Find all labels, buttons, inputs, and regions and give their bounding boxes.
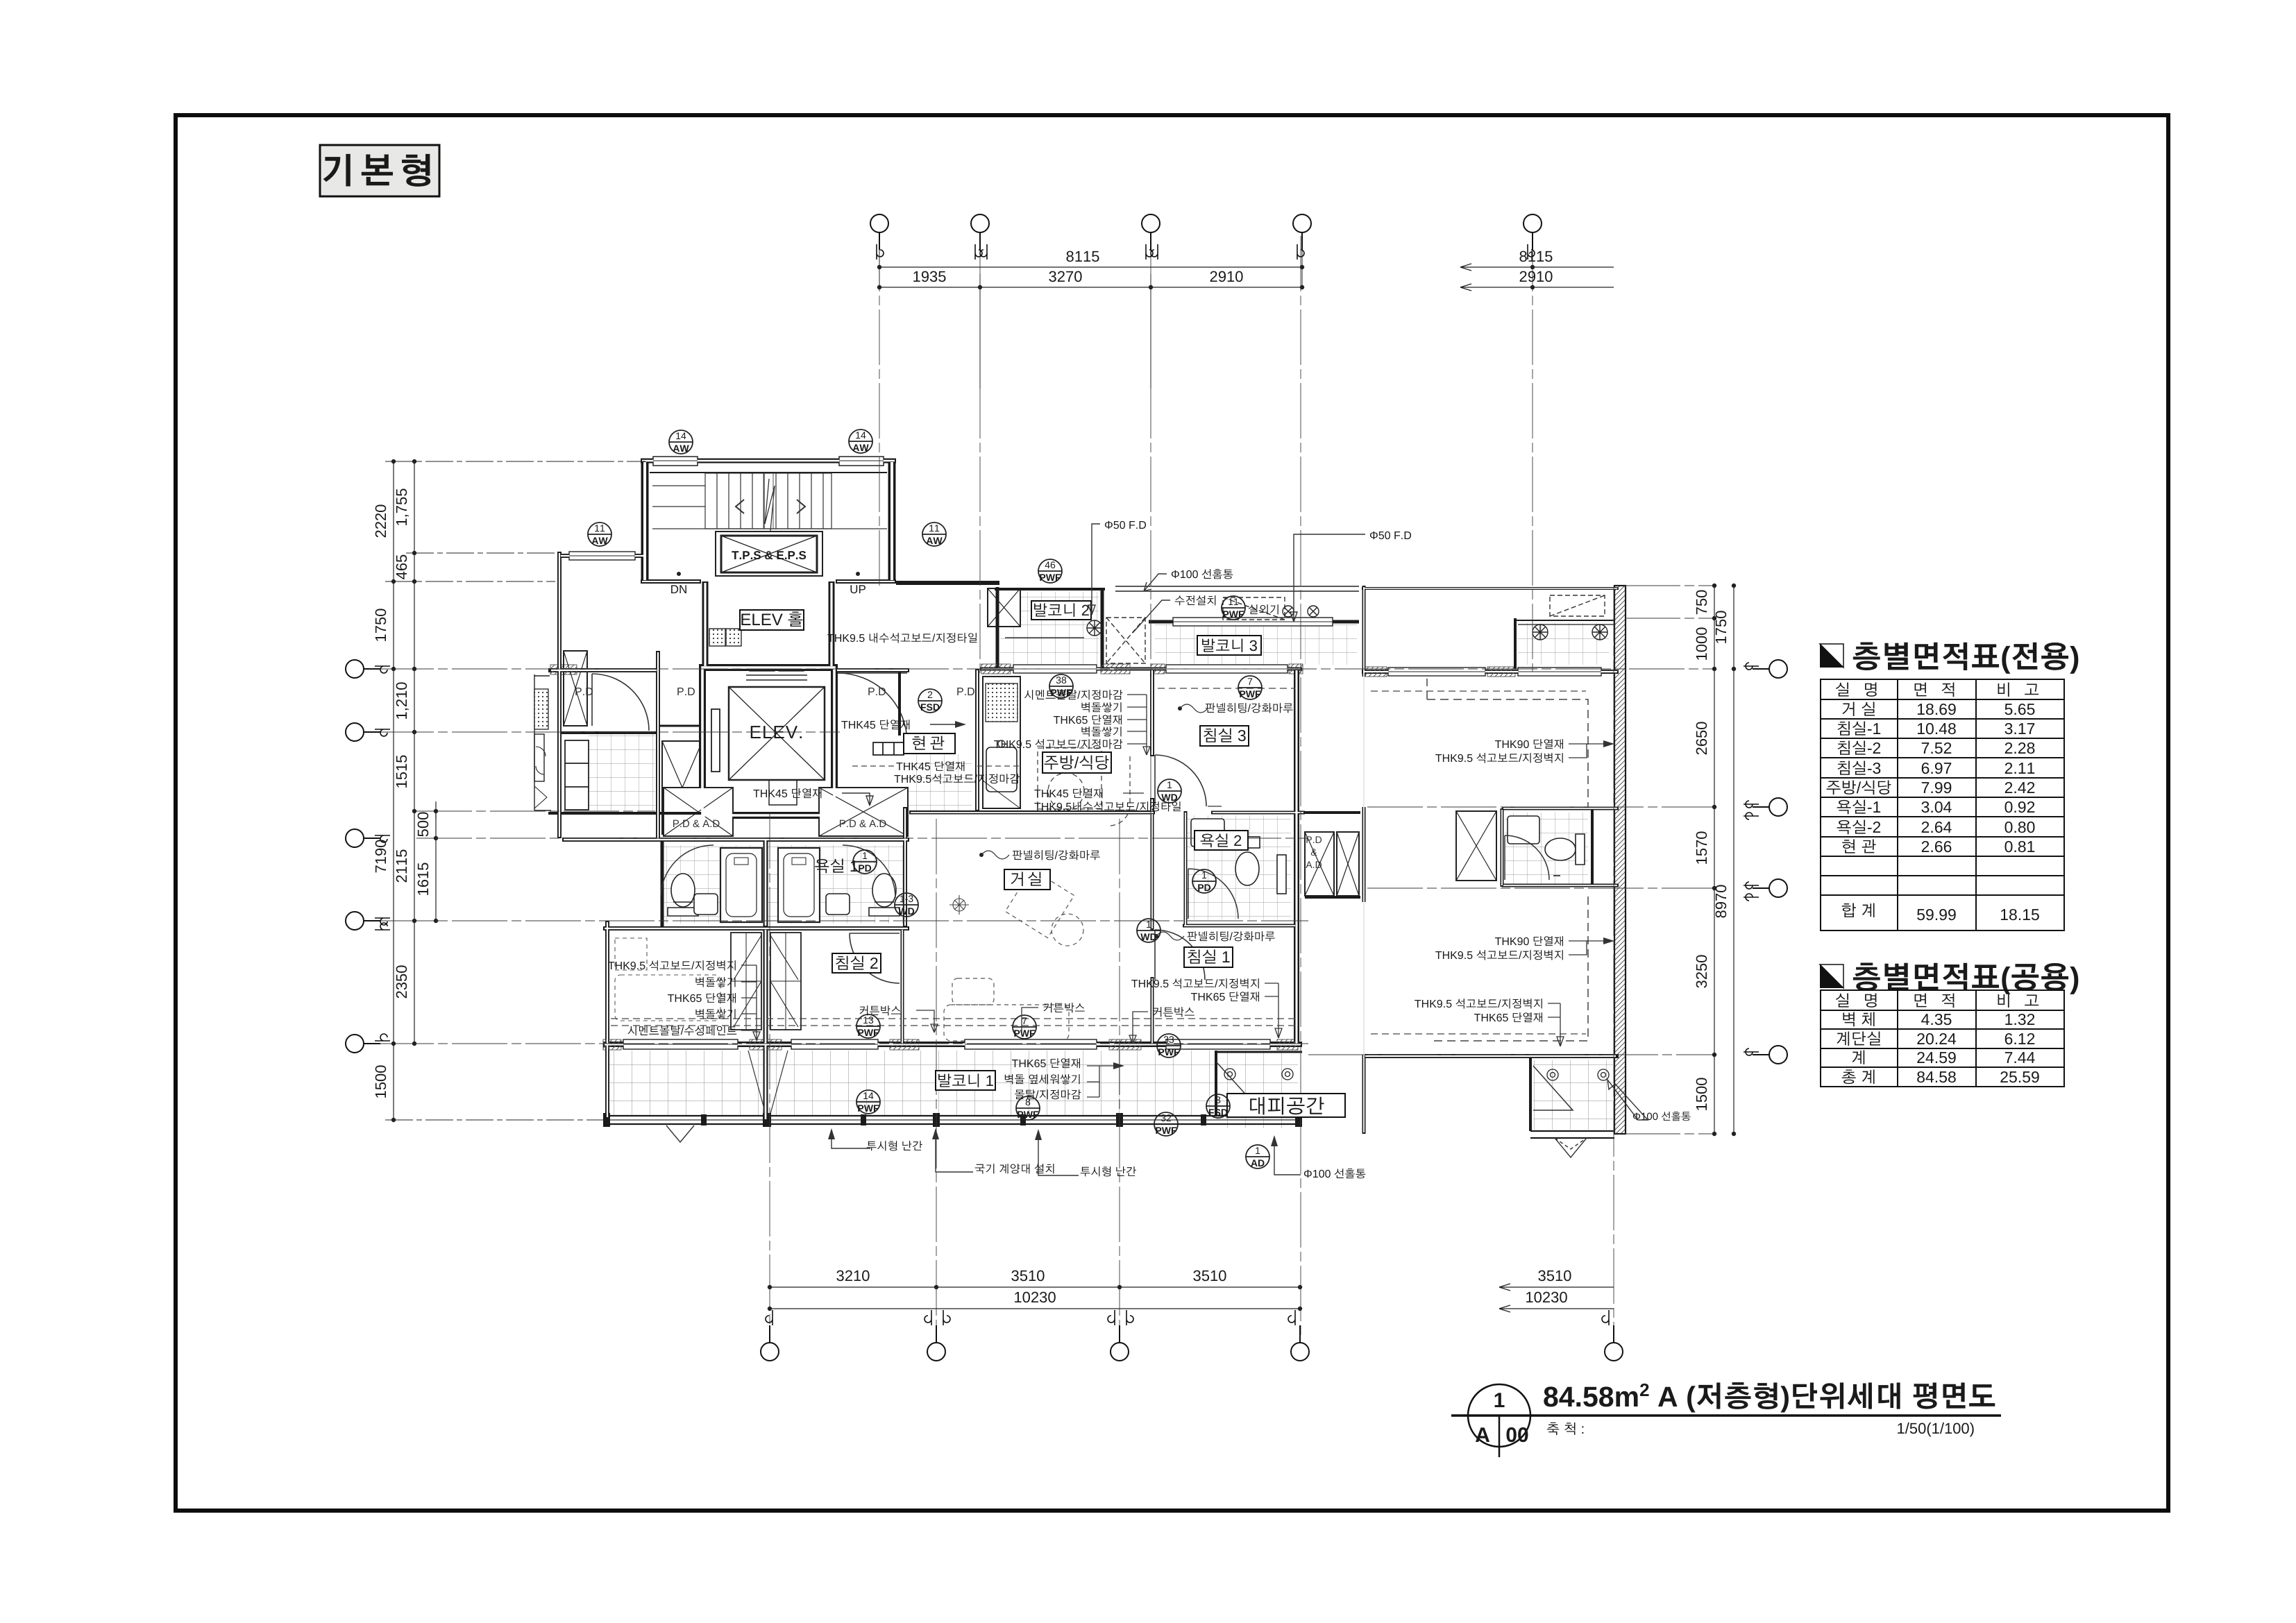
left unit inner wall <box>557 552 562 838</box>
annotation THK45 단열재 right of 현관 <box>896 761 964 771</box>
P.D duct box left of balcony2 <box>988 588 1020 627</box>
stair top AW windows <box>653 457 884 466</box>
대피공간 door <box>1216 1062 1256 1106</box>
bedroom south wall with windows <box>603 1039 1302 1049</box>
buffer shafts between units <box>1305 832 1359 896</box>
left unit balcony exterior double doors <box>666 1125 694 1142</box>
tile floor right-unit refuge room <box>1533 1060 1613 1130</box>
room label 발코니 1 <box>936 1071 995 1090</box>
right dim column outer 1750/8970 <box>1732 584 1735 1135</box>
left dim column A <box>385 459 645 1121</box>
main unit east wall <box>1294 669 1299 1046</box>
bathtub left unit <box>720 848 762 922</box>
left unit hall wall y1054 <box>559 731 658 734</box>
bed2 finish annotation stack <box>608 960 736 1035</box>
left hooks <box>375 666 390 1041</box>
AC unit dashed platform right unit <box>1550 595 1605 616</box>
horizontal row centerlines <box>378 586 1714 1134</box>
left unit south wall of entry row <box>548 812 702 815</box>
right unit west wall <box>1362 586 1366 1134</box>
balcony1 finish stack <box>1005 1058 1081 1099</box>
top grid bubbles <box>870 214 1542 250</box>
kitchen finish annotation stack <box>994 690 1122 749</box>
area table (common) grid <box>1821 990 2064 1087</box>
room label 주방/식당 <box>1043 752 1111 773</box>
annotation 국기 계양대 설치 <box>932 1128 1054 1173</box>
sink 욕실1 <box>826 894 850 915</box>
reference bubbles on plan <box>588 430 1269 1169</box>
right unit bathroom door <box>1505 835 1549 880</box>
sill hatch patches south wall <box>603 1039 1298 1050</box>
tile floor main entry 현관 <box>904 754 972 811</box>
bathtub 욕실1 <box>778 848 820 922</box>
annotation THK45 단열재 (elev) <box>841 720 966 729</box>
annotation THK9.5 내수석고보드/지정타일 (elev hall) <box>827 633 1084 643</box>
top-right continuation dims 8115 / 2910 <box>1460 264 1614 291</box>
entry door arc 현관 <box>838 673 907 742</box>
annotation 판넬히팅/강화마루 bed1 <box>1154 931 1275 941</box>
right unit balcony exterior double doors <box>1555 1138 1587 1157</box>
room label 욕실 2 <box>1195 831 1248 850</box>
tile floor 대피공간 <box>1216 1051 1298 1128</box>
tile floor right-unit laundry balcony <box>1518 623 1609 665</box>
DN / UP labels <box>677 572 681 576</box>
커튼박스 annotations <box>859 1005 938 1033</box>
wall segments closing buffer <box>1305 813 1360 897</box>
대피공간 floor drains <box>1224 1069 1293 1080</box>
right dim column <box>1712 584 1716 1135</box>
room label 침실 2 <box>832 953 881 973</box>
bottom grid bubbles <box>761 1325 1623 1361</box>
bottom dim 10230 <box>768 1307 1301 1310</box>
wardrobes on party wall <box>731 933 801 1030</box>
elevator hall side walls <box>702 581 709 668</box>
right unit insulation annotations lower <box>1435 936 1563 960</box>
window center lines re-stamped over cores <box>569 461 1601 1044</box>
욕실2 fixtures <box>1191 819 1286 894</box>
room label 침실 1 <box>1184 947 1233 967</box>
AC unit dashed platform main <box>1223 597 1285 620</box>
right unit north wall <box>1362 587 1619 590</box>
left grid bubbles <box>346 660 380 1053</box>
left dim column C 500/1615 <box>434 801 437 923</box>
욕실2 door arc <box>1188 869 1238 919</box>
annotation Φ50 F.D right <box>1290 532 1411 622</box>
left unit P.D room walls <box>658 651 701 841</box>
right unit refuge drains <box>1547 1069 1609 1080</box>
sheet border frame <box>176 115 2168 1511</box>
left unit north wall <box>559 552 645 560</box>
balcony3 upper ledge <box>1115 586 1359 591</box>
main unit top wall <box>896 581 999 585</box>
drawing number bubble <box>1468 1384 1530 1447</box>
vent fan symbols <box>1087 606 1607 640</box>
annotation Φ100 선홀통 right <box>1607 1080 1691 1121</box>
left dim column B <box>406 459 555 1045</box>
party wall between units lower <box>763 928 768 1121</box>
annotation 수전설치 <box>1133 595 1215 633</box>
area table (exclusive) text <box>1827 683 2039 921</box>
bed2 door arc <box>850 933 900 983</box>
현관 west wall <box>898 669 901 736</box>
room label 발코니 3 <box>1197 636 1261 655</box>
balcony3 top wall with window <box>1149 618 1359 626</box>
area table (common) title <box>1820 962 2078 994</box>
bed3 door leaf and arc <box>1155 755 1206 806</box>
sill hatch patches row y964 <box>550 664 1515 677</box>
right unit south wall <box>1364 1054 1619 1058</box>
balcony2 top wall <box>995 588 1105 590</box>
balcony1 escape partition diagonals <box>748 1051 788 1114</box>
vertical column centerlines <box>770 236 1614 1339</box>
windows in wall row y964 <box>1013 665 1601 676</box>
tile floor bathroom pair 욕실1 <box>660 845 905 924</box>
tile floor left-unit entry <box>589 731 655 811</box>
right unit bathroom walls <box>1502 808 1619 887</box>
corridor wall y1169 main <box>909 811 1305 815</box>
area table (common) text <box>1836 994 2039 1085</box>
tile floor balcony 1 <box>607 1051 1298 1116</box>
bottom-right continuation dims 3510 / 10230 <box>1499 1284 1614 1312</box>
room label 침실 3 <box>1200 726 1249 746</box>
욕실2 / bed1 wall <box>1183 924 1297 928</box>
sink left unit <box>694 894 718 915</box>
annotation Φ50 F.D left <box>1088 521 1146 615</box>
left unit P.D & A.D shaft <box>662 741 702 834</box>
drawing title <box>1544 1382 1995 1412</box>
right unit P.D&A.D shaft <box>1456 811 1496 881</box>
room label 발코니 2 <box>1031 601 1091 620</box>
left-unit bedroom west wall <box>605 921 609 1119</box>
욕실2 west wall <box>1184 811 1188 927</box>
bottom dims 3210/3510/3510 <box>768 1285 1301 1289</box>
right unit bathroom fixtures <box>1508 816 1585 876</box>
left-unit bedroom dashed sofa <box>615 938 720 1021</box>
bathroom pair side walls <box>662 807 905 927</box>
top dimension line 8115 <box>877 250 1303 287</box>
annotation THK45 단열재 kitchen low <box>1034 788 1144 798</box>
annotation THK9.5석고보드/지정마감 <box>894 774 1020 783</box>
right unit bathroom wall east <box>1591 808 1594 887</box>
right unit refuge door <box>1533 1066 1573 1110</box>
stair enclosure outer walls <box>641 459 896 581</box>
right hooks <box>1744 663 1759 1055</box>
annotation Φ100 선홈통 top <box>1144 569 1233 591</box>
elevator shaft walls <box>702 668 834 815</box>
stair break line <box>765 479 775 531</box>
room label 욕실 1 <box>815 859 857 874</box>
toilet 욕실1 <box>869 874 900 916</box>
T.P.S & E.P.S shaft <box>716 532 822 576</box>
living/bed1 divider <box>1151 813 1154 930</box>
left unit P.D shaft <box>564 651 587 726</box>
curtain box dashed lines <box>611 688 1586 1034</box>
tile floor right-unit bathroom <box>1505 813 1588 884</box>
kitchen dashed dining table <box>1038 748 1130 826</box>
bed1 door <box>1155 930 1205 980</box>
bed2/living divider <box>901 928 904 1046</box>
annotation 실외기 <box>1249 604 1278 614</box>
right grid bubbles <box>1753 660 1787 1064</box>
room label ELEV 홀 <box>740 610 804 630</box>
tile floor balcony 2 <box>1000 592 1099 666</box>
annotation THK9.5내수석고보드/지정타일 kitchen low <box>1034 801 1222 811</box>
annotation 판넬히팅/강화마루 living <box>979 850 1100 860</box>
annotation 투시형 난간 mid <box>1035 1129 1136 1176</box>
annotation 투시형 난간 left <box>828 1128 922 1150</box>
top centerline hooks <box>877 244 1535 260</box>
entry/kitchen divider wall <box>975 669 979 811</box>
area table (exclusive) grid <box>1821 679 2064 931</box>
annotation Φ100 선홀통 bottom left <box>1271 1135 1365 1178</box>
right unit refuge walls <box>1530 1056 1614 1138</box>
F.D duct dashed box <box>1106 618 1145 663</box>
main horizontal wall row y964 <box>548 669 1619 672</box>
right unit east wall hatched <box>1614 586 1626 1134</box>
bottom hooks <box>766 1310 1609 1325</box>
kitchen/bed3 divider wall <box>1150 669 1154 756</box>
room label 대피공간 <box>1227 1094 1345 1117</box>
bathroom door arcs <box>661 845 895 898</box>
right unit bottom annotations <box>1415 999 1542 1022</box>
bathroom bottom wall <box>603 926 909 931</box>
balcony2 left wall <box>996 587 999 668</box>
kitchen counter <box>983 677 1020 808</box>
corridor centerline pass <box>909 810 1155 812</box>
annotation THK45 단열재 (elev bottom) <box>753 788 873 806</box>
elevator car <box>711 665 825 805</box>
bathroom north wall <box>562 838 909 842</box>
대피공간 walls <box>1216 1051 1302 1116</box>
balcony1 mullion blocks <box>603 1113 1302 1127</box>
dot hatch swatch elev hall <box>709 629 725 646</box>
right unit insulation dashed line <box>1427 679 1588 1041</box>
top dimension line 1935/3270/2910 <box>877 274 1303 389</box>
main P.D&A.D boxes beside elevator <box>664 788 908 836</box>
tile floor bathroom 욕실2 <box>1187 815 1291 919</box>
scale row <box>1547 1422 1583 1435</box>
toilet left unit <box>668 874 698 916</box>
left unit entry door arc <box>592 674 649 731</box>
tile floor balcony 3 <box>1155 624 1357 665</box>
living room dashed furniture <box>944 869 1083 1041</box>
wall between balcony2 and duct <box>1101 589 1104 668</box>
survey crosshair mark living <box>949 895 969 915</box>
annotation 판넬히팅/강화마루 bed3 <box>1178 703 1293 713</box>
room label 거실 <box>1004 869 1050 890</box>
area table (exclusive) title <box>1820 642 2078 673</box>
right unit insulation annotations upper <box>1435 739 1563 763</box>
left unit shoe cabinet <box>565 740 589 810</box>
room label 현관 <box>904 733 955 754</box>
right unit laundry balcony walls <box>1515 618 1614 669</box>
bed1 finish annotations <box>1131 978 1259 1001</box>
balcony1 south window wall <box>603 1116 1302 1124</box>
stair treads <box>652 473 887 529</box>
P.D texts near elevator <box>868 688 886 695</box>
entry shoe cabinets <box>873 742 904 755</box>
title tag 기본형 <box>320 145 439 196</box>
stair direction chevrons <box>736 500 805 513</box>
left unit kitchen counter <box>534 674 551 810</box>
wall white cores (double-line effect) <box>551 461 1617 1132</box>
